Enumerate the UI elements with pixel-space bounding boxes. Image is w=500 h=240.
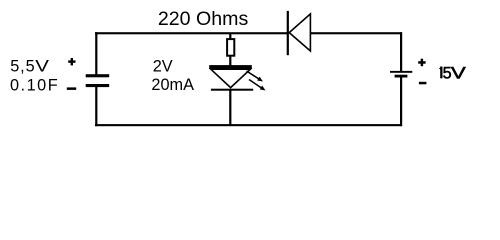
battery B1 positive plate — [390, 71, 412, 73]
wire: bottom horizontal — [95, 124, 402, 126]
capacitor C1 top plate — [86, 74, 110, 77]
LED D1 triangle — [211, 69, 251, 87]
wire: resistor stub from top wire — [229, 33, 231, 39]
svg-text:220 Ohms: 220 Ohms — [158, 8, 249, 30]
wire: LED cathode down to bottom wire — [229, 90, 231, 125]
svg-text:5,5: 5,5 — [10, 57, 35, 75]
battery plus sign — [418, 59, 425, 66]
LED D1 anode bar — [209, 65, 252, 69]
wire: right vertical, above battery — [400, 32, 402, 71]
LED light arrow 1 — [247, 71, 264, 82]
svg-text:20mA: 20mA — [151, 76, 194, 94]
wire: top horizontal, left segment (cap to diode) — [95, 32, 288, 34]
battery minus sign — [419, 82, 427, 85]
resistor R1 body — [227, 39, 234, 56]
diode D2 cathode bar — [287, 11, 289, 55]
svg-text:V: V — [35, 56, 49, 74]
capacitor minus sign — [67, 87, 76, 90]
wire: left vertical, below capacitor — [95, 87, 97, 127]
LED D1 cathode line — [211, 89, 253, 91]
capacitor plus sign — [68, 58, 75, 65]
LED light arrow 2 — [249, 80, 266, 91]
wire: top horizontal, right segment (diode to battery) — [310, 32, 402, 34]
diode D2 triangle — [289, 14, 310, 51]
capacitor C1 bottom plate — [86, 84, 110, 87]
svg-text:2V: 2V — [153, 58, 173, 76]
svg-text:0.10F: 0.10F — [10, 76, 59, 94]
svg-text:V: V — [451, 64, 466, 82]
battery B1 negative plate — [395, 75, 408, 78]
wire: right vertical, below battery — [400, 77, 402, 126]
wire: stub resistor to LED — [229, 56, 231, 66]
label 15V — [439, 64, 466, 82]
wire: left vertical, above capacitor — [95, 32, 97, 74]
